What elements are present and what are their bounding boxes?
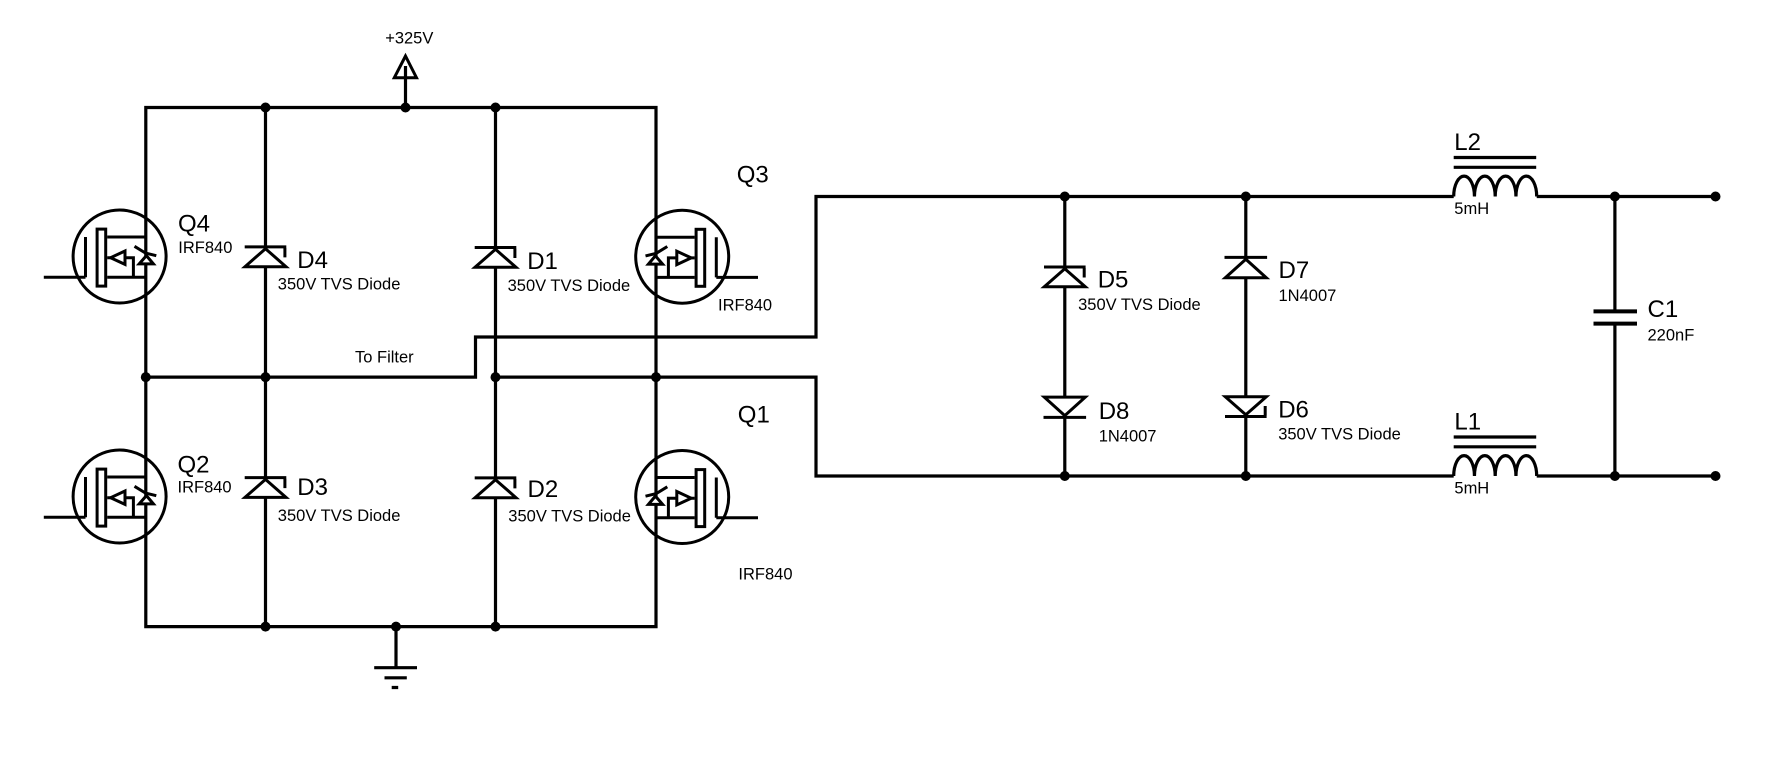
svg-text:Q4: Q4 <box>178 210 210 237</box>
svg-text:350V TVS Diode: 350V TVS Diode <box>508 277 631 295</box>
svg-text:350V TVS Diode: 350V TVS Diode <box>1278 426 1401 444</box>
svg-text:350V TVS Diode: 350V TVS Diode <box>278 276 401 294</box>
svg-text:C1: C1 <box>1648 296 1679 323</box>
svg-text:IRF840: IRF840 <box>178 239 232 257</box>
svg-text:1N4007: 1N4007 <box>1279 287 1337 305</box>
svg-text:D6: D6 <box>1278 397 1309 424</box>
svg-text:To Filter: To Filter <box>355 348 414 366</box>
svg-text:Q3: Q3 <box>737 162 769 189</box>
svg-text:Q1: Q1 <box>738 401 770 428</box>
svg-text:L1: L1 <box>1454 409 1481 436</box>
svg-text:D3: D3 <box>297 474 328 501</box>
svg-text:D7: D7 <box>1279 257 1310 284</box>
svg-text:+325V: +325V <box>385 30 433 48</box>
svg-text:D4: D4 <box>297 247 328 274</box>
svg-text:D2: D2 <box>528 476 559 503</box>
svg-text:220nF: 220nF <box>1648 326 1695 344</box>
svg-text:IRF840: IRF840 <box>178 479 232 497</box>
svg-text:350V TVS Diode: 350V TVS Diode <box>278 507 401 525</box>
svg-text:IRF840: IRF840 <box>738 566 792 584</box>
svg-text:L2: L2 <box>1454 129 1481 156</box>
svg-text:D1: D1 <box>527 248 558 275</box>
svg-text:D8: D8 <box>1099 398 1130 425</box>
svg-text:D5: D5 <box>1098 267 1129 294</box>
svg-text:350V TVS Diode: 350V TVS Diode <box>1078 296 1201 314</box>
svg-text:5mH: 5mH <box>1454 200 1489 218</box>
svg-text:5mH: 5mH <box>1454 480 1489 498</box>
svg-text:350V TVS Diode: 350V TVS Diode <box>508 507 631 525</box>
svg-text:Q2: Q2 <box>178 451 210 478</box>
svg-text:1N4007: 1N4007 <box>1099 427 1157 445</box>
svg-text:IRF840: IRF840 <box>718 297 772 315</box>
